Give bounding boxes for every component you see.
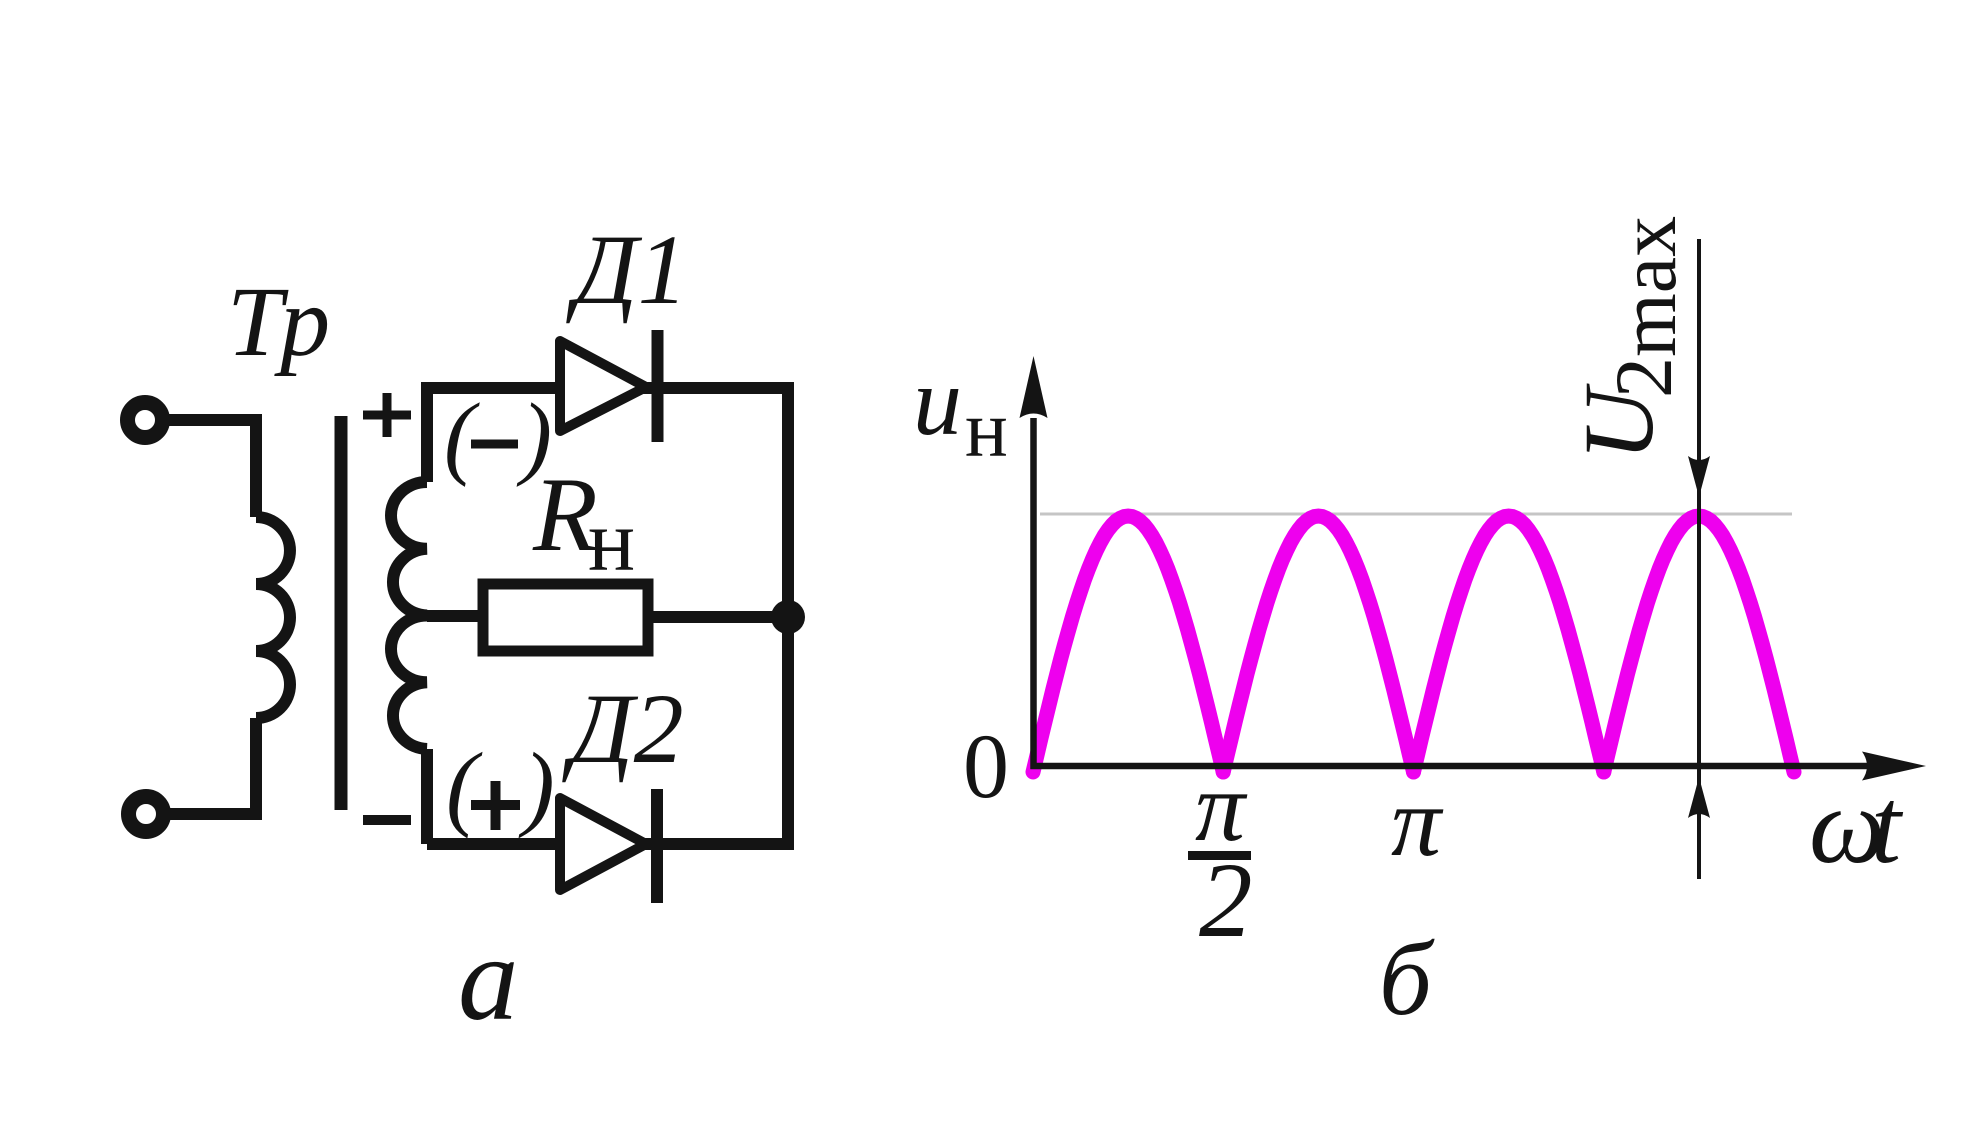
diode D2 cathode bar bbox=[651, 789, 663, 903]
y axis bbox=[1034, 418, 1871, 766]
svg-text:Д2: Д2 bbox=[562, 673, 684, 784]
diode D2 bbox=[560, 798, 646, 890]
svg-text:max: max bbox=[1602, 216, 1693, 357]
svg-text:): ) bbox=[516, 385, 552, 488]
dimension arrow up (at axis) bbox=[1688, 777, 1710, 818]
wire secondary top bbox=[427, 382, 788, 394]
terminal bottom bbox=[129, 797, 164, 832]
U2max dimension line bbox=[1697, 239, 1701, 879]
rectified sine curve bbox=[1033, 516, 1223, 772]
svg-text:(: ( bbox=[446, 733, 483, 839]
wire primary vertical bottom bbox=[163, 718, 256, 814]
wire top terminal to primary bbox=[162, 414, 256, 426]
svg-text:u: u bbox=[913, 348, 962, 456]
svg-text:(: ( bbox=[444, 385, 480, 488]
svg-text:Д1: Д1 bbox=[566, 214, 688, 325]
minus sign bbox=[363, 815, 411, 825]
label U2max (rotated) bbox=[1563, 216, 1693, 461]
primary winding L1 (3 arcs bulging right) bbox=[256, 517, 290, 718]
svg-text:π: π bbox=[1391, 766, 1444, 877]
plus sign bbox=[363, 393, 411, 437]
y axis arrowhead bbox=[1020, 356, 1048, 418]
dimension arrow down (at peak) bbox=[1688, 456, 1710, 497]
terminal top bbox=[128, 403, 163, 438]
diode D1 cathode bar bbox=[652, 330, 664, 442]
transformer core bbox=[335, 416, 348, 810]
svg-text:t: t bbox=[1871, 767, 1904, 886]
svg-text:2: 2 bbox=[1598, 357, 1689, 398]
label (+) bbox=[446, 733, 555, 839]
diode D1 bbox=[560, 341, 646, 431]
svg-text:н: н bbox=[588, 493, 635, 590]
secondary winding (4 arcs bulging left, centre tap) bbox=[391, 482, 427, 749]
svg-text:Тр: Тр bbox=[227, 266, 330, 377]
resistor Rn bbox=[483, 584, 648, 651]
peak level guide line bbox=[1040, 513, 1792, 516]
label (-) bbox=[444, 385, 552, 488]
wire right vertical bbox=[782, 382, 794, 850]
x axis arrowhead bbox=[1862, 752, 1926, 781]
wire centre tap to resistor bbox=[427, 610, 478, 622]
svg-text:н: н bbox=[965, 386, 1008, 474]
wire primary vertical top bbox=[250, 414, 262, 517]
wire secondary vertical bottom bbox=[421, 749, 433, 844]
wire secondary vertical top bbox=[421, 382, 433, 482]
svg-text:0: 0 bbox=[963, 715, 1009, 817]
wire resistor to node bbox=[653, 611, 788, 623]
svg-text:а: а bbox=[458, 912, 519, 1046]
wire secondary bottom bbox=[427, 838, 788, 850]
svg-text:б: б bbox=[1379, 920, 1435, 1037]
svg-text:): ) bbox=[518, 733, 555, 839]
node junction dot bbox=[771, 600, 805, 634]
fraction bar bbox=[1188, 851, 1251, 860]
svg-text:2: 2 bbox=[1199, 842, 1253, 960]
